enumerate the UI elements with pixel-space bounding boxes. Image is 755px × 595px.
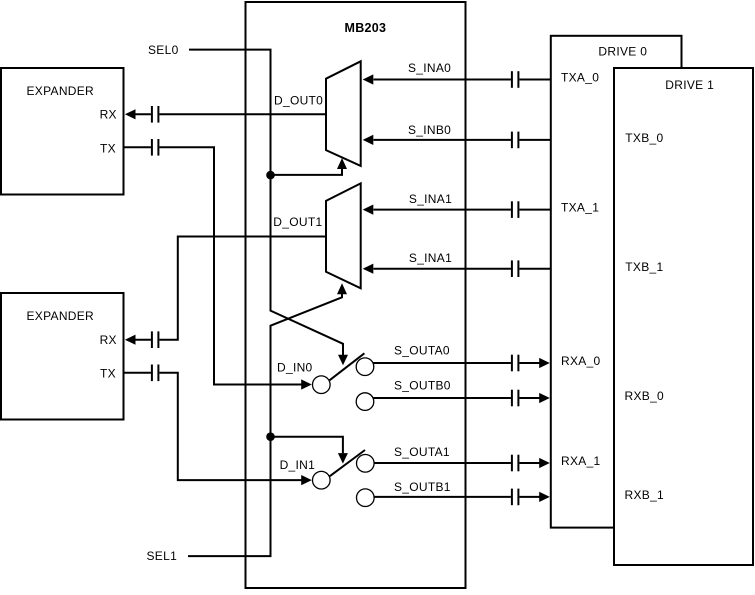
svg-text:RXA_1: RXA_1 [561,454,601,468]
svg-text:TXB_1: TXB_1 [625,260,663,274]
svg-text:TXA_1: TXA_1 [561,201,599,215]
svg-text:D_IN1: D_IN1 [280,458,316,472]
svg-text:D_OUT0: D_OUT0 [274,93,323,107]
svg-text:TXB_0: TXB_0 [625,131,663,145]
svg-text:MB203: MB203 [345,21,387,35]
svg-text:TX: TX [100,367,116,381]
svg-text:S_OUTB1: S_OUTB1 [394,480,451,494]
svg-text:RX: RX [100,333,117,347]
svg-text:S_OUTB0: S_OUTB0 [394,379,451,393]
svg-text:S_OUTA0: S_OUTA0 [394,343,450,357]
svg-text:EXPANDER: EXPANDER [27,309,95,323]
svg-text:TX: TX [100,141,116,155]
svg-text:D_IN0: D_IN0 [277,360,313,374]
svg-text:RXA_0: RXA_0 [561,354,601,368]
svg-text:D_OUT1: D_OUT1 [273,215,322,229]
svg-text:EXPANDER: EXPANDER [27,84,95,98]
svg-text:DRIVE 1: DRIVE 1 [665,78,714,92]
svg-text:SEL0: SEL0 [148,43,179,57]
svg-text:RXB_0: RXB_0 [625,389,665,403]
svg-text:S_INA0: S_INA0 [408,61,451,75]
svg-text:S_INB0: S_INB0 [408,123,451,137]
svg-text:SEL1: SEL1 [147,549,178,563]
svg-text:RXB_1: RXB_1 [625,488,665,502]
svg-text:S_INA1: S_INA1 [409,192,452,206]
svg-text:DRIVE 0: DRIVE 0 [598,44,647,58]
svg-text:S_OUTA1: S_OUTA1 [394,445,450,459]
svg-text:TXA_0: TXA_0 [561,71,599,85]
svg-text:RX: RX [100,108,117,122]
svg-text:S_INA1: S_INA1 [409,251,452,265]
